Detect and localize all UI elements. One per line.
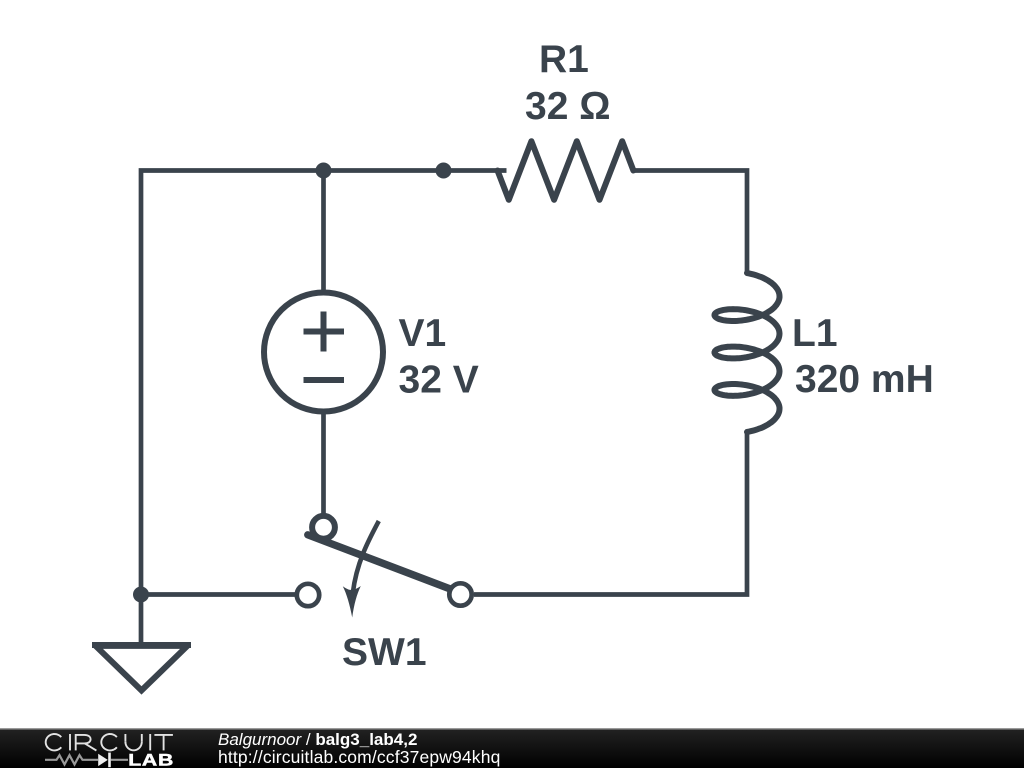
CircuitLab logo wordmark CIRCUIT [46, 734, 173, 751]
node B junction dot [436, 163, 452, 179]
footer bar [0, 729, 1024, 768]
node A junction dot [316, 163, 332, 179]
wire [139, 595, 144, 646]
switch SW1 pivot terminal [312, 516, 335, 539]
resistor R1 [498, 141, 634, 200]
ground [92, 642, 191, 648]
voltage source V1 [264, 293, 383, 412]
wire [633, 171, 747, 274]
node C junction dot [133, 587, 149, 603]
inductor L1 [715, 273, 780, 432]
svg-text:32 Ω: 32 Ω [525, 85, 610, 128]
switch SW1 arrowhead [343, 586, 361, 618]
switch SW1 actuation arrow [353, 521, 379, 593]
wire [321, 411, 326, 514]
wire [324, 168, 507, 173]
svg-text:http://circuitlab.com/ccf37epw: http://circuitlab.com/ccf37epw94khq [218, 747, 500, 767]
svg-text:Balgurnoor / balg3_lab4,2: Balgurnoor / balg3_lab4,2 [218, 730, 417, 749]
svg-text:320 mH: 320 mH [795, 358, 934, 401]
svg-text:V1: V1 [399, 312, 447, 355]
wire [474, 432, 747, 595]
svg-text:L1: L1 [792, 312, 838, 355]
switch SW1 left terminal [297, 584, 319, 606]
switch SW1 right terminal [449, 583, 471, 605]
svg-text:R1: R1 [539, 38, 589, 81]
wire [141, 171, 324, 595]
CircuitLab logo resistor-diode glyph [45, 755, 128, 764]
svg-text:LAB: LAB [128, 752, 174, 768]
wire [141, 592, 297, 597]
wire [321, 171, 326, 294]
svg-text:32 V: 32 V [399, 359, 479, 402]
switch SW1 blade [308, 535, 449, 589]
svg-text:SW1: SW1 [342, 631, 427, 674]
